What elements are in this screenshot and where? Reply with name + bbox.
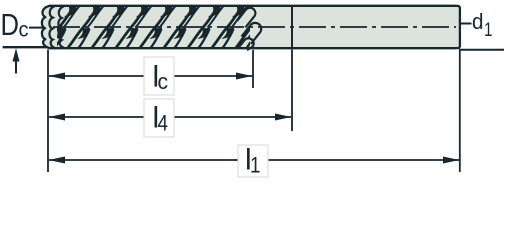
svg-text:1: 1 bbox=[484, 20, 493, 41]
svg-text:4: 4 bbox=[158, 111, 169, 136]
svg-text:1: 1 bbox=[250, 153, 261, 178]
svg-text:D: D bbox=[1, 7, 20, 42]
svg-text:c: c bbox=[158, 69, 169, 94]
svg-text:c: c bbox=[19, 19, 29, 42]
svg-text:d: d bbox=[472, 9, 484, 34]
